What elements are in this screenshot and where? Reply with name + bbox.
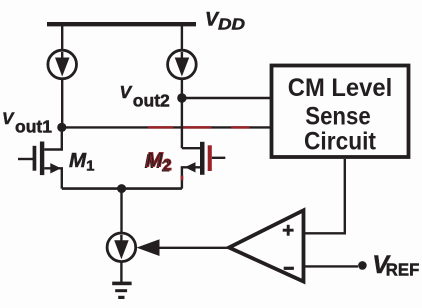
current source I1 [48,50,77,79]
label CM Level Sense Circuit [288,74,393,156]
node Vout1 [57,123,66,132]
wire opamp - to VREF [304,265,359,267]
transistor M1 [18,127,62,188]
red trace dash 2 [183,126,211,128]
label M2 [144,149,172,176]
current source I2 [168,50,197,79]
wire VDD rail [47,22,196,26]
wire [120,262,122,282]
current source I3 tail [107,233,136,262]
wire opamp output [159,247,231,249]
wire source rail [62,187,182,190]
ground [112,282,131,299]
wire [120,189,122,234]
CM Level Sense Circuit box [272,66,409,158]
transistor M2 [181,142,226,189]
wire [181,98,183,148]
op-amp U1 [229,210,304,281]
svg-text:Sense: Sense [305,103,371,131]
svg-text:Circuit: Circuit [304,128,377,156]
red trace dash 1 [148,126,173,128]
wire [61,79,63,128]
wire [181,79,183,98]
node VREF [358,261,367,270]
node Vout2 [177,93,186,102]
wire CM box to opamp + [304,159,345,233]
arrow opamp output to I3 [137,239,160,256]
wire [181,26,183,51]
wire [61,26,63,51]
wire Vout1 to CM box [62,126,271,128]
wire Vout2 to CM box [182,97,271,99]
node tail [117,184,126,193]
red trace dash 3 [231,126,249,128]
svg-text:CM Level: CM Level [288,74,393,102]
